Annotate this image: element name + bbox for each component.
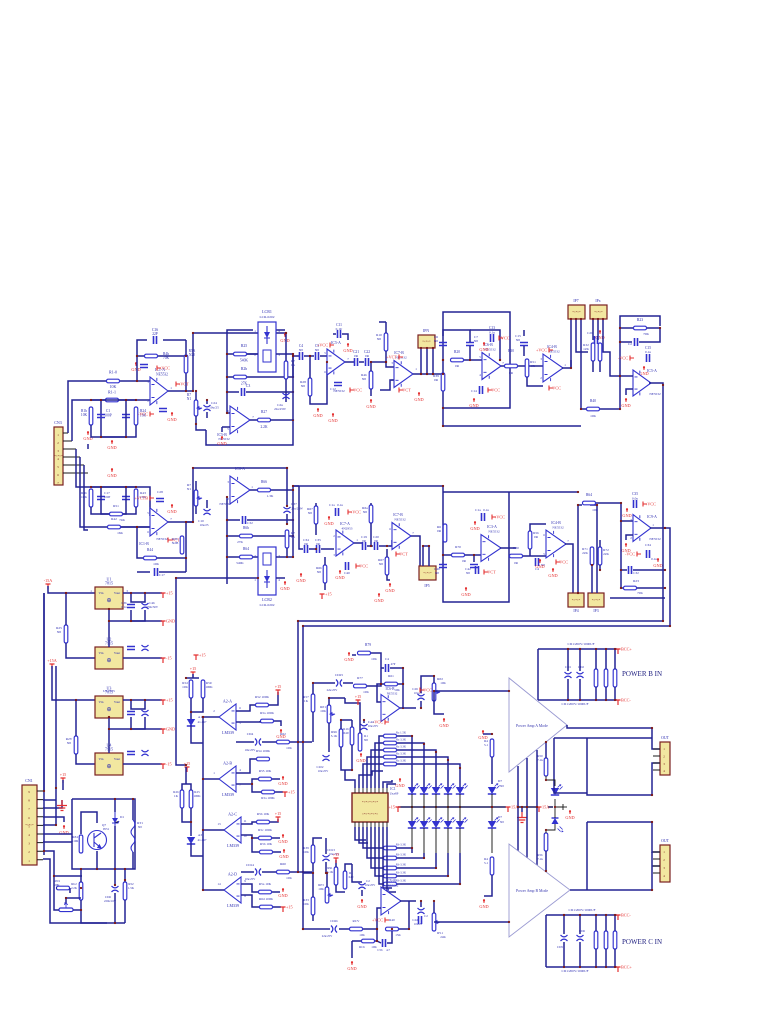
svg-text:10K: 10K: [440, 681, 446, 685]
capacitor C35 0R: [317, 545, 320, 553]
svg-text:C12: C12: [330, 387, 336, 391]
wire left rail down: [43, 593, 45, 855]
ground below input network: [111, 440, 113, 444]
jumper IP5: [419, 566, 436, 580]
op-amp IC6-A NE5532: [230, 476, 250, 504]
svg-text:LCR1: LCR1: [262, 309, 272, 314]
junction dots protection: [80, 868, 126, 924]
svg-text:5.1: 5.1: [484, 743, 488, 747]
wire R51 bottom: [527, 377, 543, 386]
wire R5U bot: [191, 698, 203, 712]
ground R79 left: [348, 652, 350, 656]
wire Rb2 top: [80, 869, 82, 882]
comparator A2-A LM339: [219, 704, 236, 730]
wire R61 right: [398, 683, 403, 685]
svg-text:N0: N0: [362, 377, 367, 381]
wire CD4 left: [236, 741, 254, 743]
power +15A input: [50, 664, 55, 669]
resistor R64b 10K: [583, 501, 596, 505]
svg-text:IPx: IPx: [595, 299, 600, 303]
resistor R4b 70K: [145, 354, 158, 358]
capacitor CD13 10u/25V: [323, 855, 330, 861]
wire powerB top rail: [538, 648, 617, 650]
power GND U3: [161, 729, 166, 734]
svg-text:22u/25W: 22u/25W: [274, 407, 286, 411]
svg-text:CN1: CN1: [25, 778, 33, 783]
wire lower input row2: [100, 526, 150, 528]
capacitor C46 470u/50V: [142, 603, 149, 609]
regulator U4 7915: [95, 753, 123, 775]
svg-text:IC6-A: IC6-A: [235, 467, 245, 471]
wire R96 link: [341, 720, 352, 729]
svg-text:+VCT: +VCT: [386, 355, 397, 360]
resistor R42L 16K: [108, 525, 121, 529]
wire col3 down: [397, 853, 436, 868]
svg-text:4N2953: 4N2953: [342, 527, 353, 531]
svg-text:R40: R40: [590, 399, 596, 403]
wire fb over: [402, 684, 404, 708]
svg-text:41-067: 41-067: [197, 720, 206, 724]
svg-text:-VCC: -VCC: [138, 412, 148, 417]
resistor R5U 100K: [201, 680, 205, 698]
resistor R47 5.1: [490, 739, 494, 757]
power -VCC IC7B2: [396, 552, 400, 557]
svg-text:Vout: Vout: [114, 591, 120, 595]
LED D5b: [456, 821, 464, 828]
wire R72 bot: [599, 565, 601, 570]
CN3 pin numbers: [57, 433, 59, 485]
resistor R52z 1.5K: [123, 882, 127, 900]
svg-text:N0: N0: [435, 571, 439, 575]
svg-text:R5b 10K: R5b 10K: [257, 812, 270, 816]
ground rstage: [643, 366, 645, 370]
wire feedback R right: [158, 355, 186, 357]
LED D7 lower: [488, 821, 496, 828]
wire A2-B in2: [236, 779, 258, 784]
svg-text:R23: R23: [633, 579, 639, 583]
ground at C9: [135, 362, 137, 366]
wire R50b bot: [545, 851, 547, 871]
junction dots IPN: [420, 373, 434, 375]
wire IC7-B out: [413, 373, 443, 375]
svg-text:13: 13: [217, 822, 221, 826]
wire feedback minus node: [137, 340, 147, 381]
svg-text:Ra 3.3K: Ra 3.3K: [396, 745, 407, 749]
svg-text:+15: +15: [288, 790, 295, 795]
wire chip pin t1: [345, 770, 355, 788]
wire IC7-A out: [354, 542, 362, 544]
svg-text:-VCC: -VCC: [352, 388, 362, 393]
wire R23 left: [620, 327, 633, 329]
power BCC+ top: [616, 649, 621, 654]
svg-text:C4: C4: [385, 657, 389, 661]
svg-text:10K: 10K: [303, 850, 309, 854]
resistor R39b 10K: [311, 845, 315, 863]
svg-text:GND: GND: [217, 441, 226, 446]
svg-text:R5c 100K: R5c 100K: [258, 828, 272, 832]
junction dots LCR2: [292, 556, 294, 558]
svg-text:IP3: IP3: [593, 609, 598, 613]
junction dot lower rail: [292, 485, 294, 487]
wire C5x right: [387, 929, 392, 943]
wire RCb right: [375, 929, 377, 941]
wire potL top: [195, 481, 197, 490]
wire box top link: [470, 330, 500, 360]
svg-text:Vin: Vin: [99, 700, 104, 704]
wire R72 top: [599, 540, 601, 547]
wire R96 bot: [341, 747, 352, 770]
wire R40 right: [600, 376, 620, 409]
svg-text:0.1u: 0.1u: [337, 503, 343, 507]
LED D4a: [444, 787, 452, 794]
wire A2-D in2: [241, 895, 259, 907]
svg-text:D7: D7: [498, 815, 502, 819]
power -VCC filter2: [484, 570, 488, 575]
resistor R5a 100K: [262, 790, 275, 794]
wire R25b bot: [182, 808, 191, 822]
connector OUT1: [660, 742, 670, 775]
svg-text:10K: 10K: [81, 413, 88, 417]
power +15 near rail176: [194, 655, 199, 660]
svg-text:*×*×*: *×*×*: [572, 310, 581, 314]
jumper IP7: [568, 305, 585, 319]
resistor R91 5.1K: [334, 867, 338, 885]
ground IC4B2: [539, 559, 541, 563]
power -15 U2 out: [161, 658, 166, 663]
wire CD4 right: [262, 741, 276, 743]
wire R91 bot: [336, 885, 345, 892]
wire IC9-B out: [400, 900, 416, 902]
wire C2L branch: [125, 487, 127, 510]
junction dot IC7B in: [385, 361, 387, 363]
svg-text:100P: 100P: [104, 495, 111, 499]
wire CN1 p9: [43, 859, 107, 923]
wire IPx leg2: [597, 319, 599, 340]
wire R1b bot: [351, 745, 353, 770]
wire chip pin t9: [387, 784, 396, 788]
CN1 pin stubs: [37, 791, 43, 860]
power +VCC IC4B2: [556, 560, 560, 565]
wire drive minus: [377, 684, 381, 702]
svg-text:NE5532: NE5532: [156, 373, 168, 377]
wire C5x left: [377, 941, 381, 943]
ground R67b: [389, 583, 391, 587]
wire chip pin t2: [359, 771, 383, 788]
svg-text:10u/25: 10u/25: [200, 523, 209, 527]
wire R42L right: [121, 526, 150, 528]
power -15 U4 out: [161, 764, 166, 769]
svg-text:0R: 0R: [434, 378, 439, 382]
svg-text:GND: GND: [535, 564, 544, 569]
wire U2 gnd link: [108, 621, 110, 647]
power +15 below R6b: [320, 594, 325, 599]
svg-text:GND: GND: [107, 445, 116, 450]
wire CD6b legs: [579, 915, 581, 934]
LED column wires: [412, 794, 460, 853]
ground near IP area: [378, 593, 380, 597]
svg-text:GND: GND: [357, 904, 366, 909]
svg-text:D1: D1: [120, 815, 124, 819]
power +15 comp2: [185, 767, 190, 772]
svg-text:C17: C17: [159, 573, 165, 577]
wire R23 right: [647, 327, 660, 329]
resistor R6d 100K: [260, 905, 273, 909]
wire R23b right: [637, 587, 665, 589]
wire IP7 leg3: [580, 319, 582, 409]
svg-text:10K: 10K: [359, 933, 365, 937]
svg-text:+VCC: +VCC: [645, 502, 656, 507]
svg-text:70K: 70K: [643, 332, 649, 336]
resistor R57c 100K: [259, 836, 272, 840]
wire A2-A in2: [236, 721, 260, 722]
capacitor CD5 electrolytic: [561, 935, 568, 941]
wire CN3 pin3 gnd stub: [75, 448, 77, 450]
power +15 rail left: [396, 807, 401, 812]
power +15 U3 out: [161, 700, 166, 705]
wire R57 top: [312, 683, 314, 694]
svg-text:540K: 540K: [240, 359, 248, 363]
svg-text:10K: 10K: [153, 562, 159, 566]
wire IC6-A minus down: [226, 497, 228, 584]
svg-text:NE5532: NE5532: [649, 537, 661, 541]
resistor R70 0R: [452, 553, 465, 557]
svg-text:N2B: N2B: [172, 541, 179, 545]
capacitor CD25 22u/25V: [336, 680, 342, 687]
svg-text:10K: 10K: [286, 746, 292, 750]
svg-text:-VCT: -VCT: [401, 388, 411, 393]
svg-text:NE5532: NE5532: [488, 530, 500, 534]
svg-text:2.2K: 2.2K: [71, 886, 78, 890]
wire R1K top: [285, 333, 287, 361]
wire C3 right: [246, 391, 293, 393]
comparator A2-D LM339: [224, 877, 241, 903]
capacitor C1a 0.1u: [336, 508, 339, 516]
capacitor C202 10u/25V: [323, 755, 330, 761]
wire IC5-B out: [250, 419, 258, 421]
opto-isolator LCR1 LCR-0202: [258, 322, 276, 372]
wire U4 gnd link: [108, 729, 110, 753]
wire R57c right: [272, 837, 280, 839]
capacitor C20 0R: [375, 542, 378, 550]
wire R30 right: [518, 365, 543, 367]
svg-text:100P: 100P: [104, 414, 111, 418]
svg-text:0.1U: 0.1U: [336, 327, 343, 331]
wire R48 bottom: [370, 389, 372, 396]
junction dots final: [43, 318, 671, 942]
svg-text:NE5532: NE5532: [219, 502, 231, 506]
wire IC5-B plus gnd: [221, 427, 223, 432]
wire fb bottom: [610, 597, 665, 599]
svg-text:-VCT: -VCT: [486, 570, 496, 575]
ground CC2: [361, 899, 363, 903]
svg-text:N0: N0: [466, 571, 470, 575]
wire rail drop to caps: [299, 486, 303, 549]
op-amp IC7-A 4N2953: [336, 530, 354, 556]
svg-text:GND: GND: [166, 727, 175, 732]
resistor R54b 100K: [257, 757, 270, 761]
svg-text:-VCC: -VCC: [551, 386, 561, 391]
resistor R25v N0: [64, 625, 68, 643]
resistor R1-b 10K: [89, 407, 93, 425]
svg-text:Vin: Vin: [99, 591, 104, 595]
wire clamp gnd stub: [563, 806, 567, 808]
ground IC1-B top: [171, 504, 173, 508]
svg-text:R5a 100K: R5a 100K: [260, 711, 274, 715]
wire R40 row: [580, 408, 586, 410]
wire RN1 link: [56, 887, 57, 889]
wire IPx leg3: [603, 319, 620, 376]
resistor R67b N0: [385, 557, 389, 575]
svg-text:D7: D7: [498, 779, 502, 783]
capacitor C10L 10u/25: [204, 509, 211, 515]
wire lower net bot2: [101, 510, 126, 514]
svg-text:-15A: -15A: [44, 578, 53, 583]
svg-text:10K: 10K: [320, 709, 326, 713]
wire C15 top: [523, 330, 525, 336]
svg-text:GND: GND: [479, 347, 488, 352]
power +VCC filter2: [492, 515, 496, 520]
svg-text:R61: R61: [388, 674, 394, 678]
svg-text:-VCC: -VCC: [558, 560, 568, 565]
capacitor C19 0R: [363, 542, 366, 550]
wire col5 down: [397, 853, 460, 884]
wire RP11 top: [433, 901, 435, 913]
wire R39b top: [313, 838, 322, 845]
svg-text:LM339: LM339: [227, 843, 239, 848]
resistor R33b 10K: [311, 897, 315, 915]
svg-text:Rb 3.3K: Rb 3.3K: [396, 863, 407, 867]
wire CD25 left: [313, 682, 335, 684]
wire R51b bot: [529, 549, 531, 556]
svg-text:22K: 22K: [582, 551, 588, 555]
wire IP3 leg2: [590, 505, 597, 593]
svg-text:GND: GND: [621, 403, 630, 408]
resistor RL3 3.3K: [384, 748, 397, 752]
svg-text:0.1u: 0.1u: [651, 557, 657, 561]
wire chip pin b6: [375, 827, 383, 876]
svg-text:C37: C37: [291, 502, 297, 506]
ground CN1: [63, 825, 65, 829]
wire R70 right: [465, 554, 481, 556]
power +15 R56: [276, 817, 281, 822]
svg-text:+15A: +15A: [47, 658, 57, 663]
resistor R71 1K: [285, 530, 289, 548]
resistor R67 N0: [314, 506, 318, 524]
svg-text:R77: R77: [357, 676, 363, 680]
wire chip pin b4: [367, 827, 383, 858]
svg-text:R6d 100K: R6d 100K: [259, 897, 274, 901]
wire R6d right: [273, 906, 281, 908]
svg-text:22u/25V: 22u/25V: [327, 688, 339, 692]
wire R64b right: [596, 503, 633, 521]
svg-text:GND: GND: [279, 854, 288, 859]
wire amp B out: [570, 889, 652, 891]
wire C36 top: [131, 593, 145, 602]
svg-text:-VCC: -VCC: [490, 388, 500, 393]
svg-text:10K: 10K: [592, 508, 598, 512]
resistor R2b 27K: [234, 375, 247, 379]
ground C1a: [328, 516, 330, 520]
regulator U2 7915: [95, 647, 123, 669]
svg-text:R30: R30: [508, 349, 514, 353]
wire ampB box left: [586, 822, 588, 890]
wire protection box: [72, 799, 135, 869]
wire R44L right: [157, 557, 186, 559]
resistor R51 0R: [525, 359, 529, 377]
svg-text:R27: R27: [261, 410, 267, 414]
svg-text:GND: GND: [278, 839, 287, 844]
jumper IP3: [588, 593, 604, 607]
wire R59 right: [272, 891, 280, 893]
wire pot bottom: [196, 416, 206, 430]
svg-text:C13: C13: [489, 326, 495, 330]
wire R56 right: [270, 819, 278, 822]
wire C22 to R4b: [370, 362, 394, 367]
wire chip pin t4: [367, 757, 383, 788]
capacitor C2 N0: [122, 415, 130, 418]
svg-text:C2: C2: [424, 914, 428, 918]
svg-text:C35: C35: [632, 492, 638, 496]
wire feedback right node: [185, 340, 187, 391]
wire node to caps: [293, 356, 299, 420]
wire R23b row: [621, 587, 623, 589]
resistor R10 N0: [384, 333, 388, 351]
wire stack to col2: [397, 743, 424, 787]
CN1 pin numbers: [28, 790, 30, 863]
svg-text:C32: C32: [633, 571, 639, 575]
capacitor CD2 electrolytic: [577, 672, 584, 678]
wire network top rail: [91, 399, 136, 401]
svg-text:C24: C24: [211, 401, 217, 405]
svg-text:Ra 3.3K: Ra 3.3K: [396, 738, 407, 742]
svg-text:10K: 10K: [363, 690, 369, 694]
wire fb C3 row: [227, 391, 239, 393]
svg-text:NE5532: NE5532: [388, 884, 399, 888]
op-amp IC6-B NE5532: [482, 353, 501, 380]
svg-text:0.1u: 0.1u: [483, 508, 489, 512]
wire CN1 p3 to earth: [43, 800, 62, 808]
svg-text:N0: N0: [363, 510, 368, 514]
wire R25v top: [65, 593, 67, 625]
svg-text:CD2: CD2: [578, 665, 584, 669]
svg-text:R5b 10K: R5b 10K: [260, 842, 273, 846]
wire R17 top: [345, 864, 352, 871]
wire RC bots: [595, 949, 597, 967]
wire filter box outline: [443, 312, 510, 408]
wire R2b right: [247, 376, 293, 378]
capacitor C40a 0.1u: [346, 562, 349, 570]
resistor R56 10K: [257, 820, 270, 824]
resistor R48 N0: [369, 371, 373, 389]
wire A2-A in1: [236, 705, 256, 711]
wire CN1 p8: [43, 851, 82, 876]
ground R59: [282, 888, 284, 892]
svg-text:IP7: IP7: [573, 299, 578, 303]
ground D7 bottom: [483, 899, 485, 903]
svg-text:C2b: C2b: [587, 331, 593, 335]
wire RB bots: [595, 687, 597, 700]
resistor R59 100K: [259, 890, 272, 894]
wire C6-C7 top: [443, 330, 470, 342]
resistor RL4 3.3K: [384, 755, 397, 759]
svg-text:-VCC: -VCC: [625, 552, 635, 557]
capacitor C40 N0: [439, 565, 447, 568]
resistor R1b 640: [350, 727, 354, 745]
svg-text:R64: R64: [586, 493, 592, 497]
svg-text:R5a 10K: R5a 10K: [259, 882, 272, 886]
CN3 pin stubs: [63, 433, 88, 473]
wire C32b row: [621, 569, 627, 571]
